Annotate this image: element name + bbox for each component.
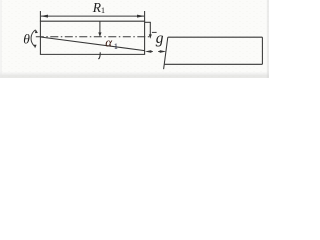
theta angle arc [31, 30, 35, 46]
wire taper slant line [41, 37, 145, 51]
svg-text:α: α [105, 34, 113, 49]
R1 left arrowhead [41, 15, 49, 18]
svg-text:g: g [156, 30, 164, 47]
wire right extension / taper right edge [144, 11, 146, 54]
plate top edge [168, 36, 263, 38]
plate bottom edge [165, 63, 263, 65]
photo edge shading bottom [0, 75, 269, 79]
svg-text:θ: θ [23, 31, 30, 46]
feed point tick on bottom edge [99, 52, 101, 58]
R1 dimension line [41, 15, 144, 17]
wire left extension / taper left edge [39, 11, 41, 54]
photo edge shading right [267, 0, 269, 78]
node centerline dash-dot axis [36, 36, 152, 38]
R1 right arrowhead [137, 15, 145, 18]
svg-text:1: 1 [101, 5, 105, 15]
plate right edge [261, 37, 263, 64]
theta arc bottom arrowhead [33, 44, 36, 48]
wire top edge overshoot [145, 21, 151, 23]
theta arc top arrowhead [34, 29, 38, 34]
g dimension left arrow [145, 50, 152, 53]
g dimension right arrow [160, 50, 167, 53]
svg-text:1: 1 [114, 41, 118, 51]
paper background [0, 0, 269, 78]
photo edge shading left [0, 0, 2, 78]
wire g leader tick [152, 31, 157, 33]
alpha1 pointer arrow [99, 21, 101, 33]
step arrowhead pointing down to centerline [149, 34, 152, 38]
wire taper bottom edge [40, 53, 145, 55]
wire top-edge step vertical at x=150.3 [149, 22, 151, 35]
plate slanted left edge [164, 37, 168, 69]
wire taper top edge [40, 20, 145, 22]
